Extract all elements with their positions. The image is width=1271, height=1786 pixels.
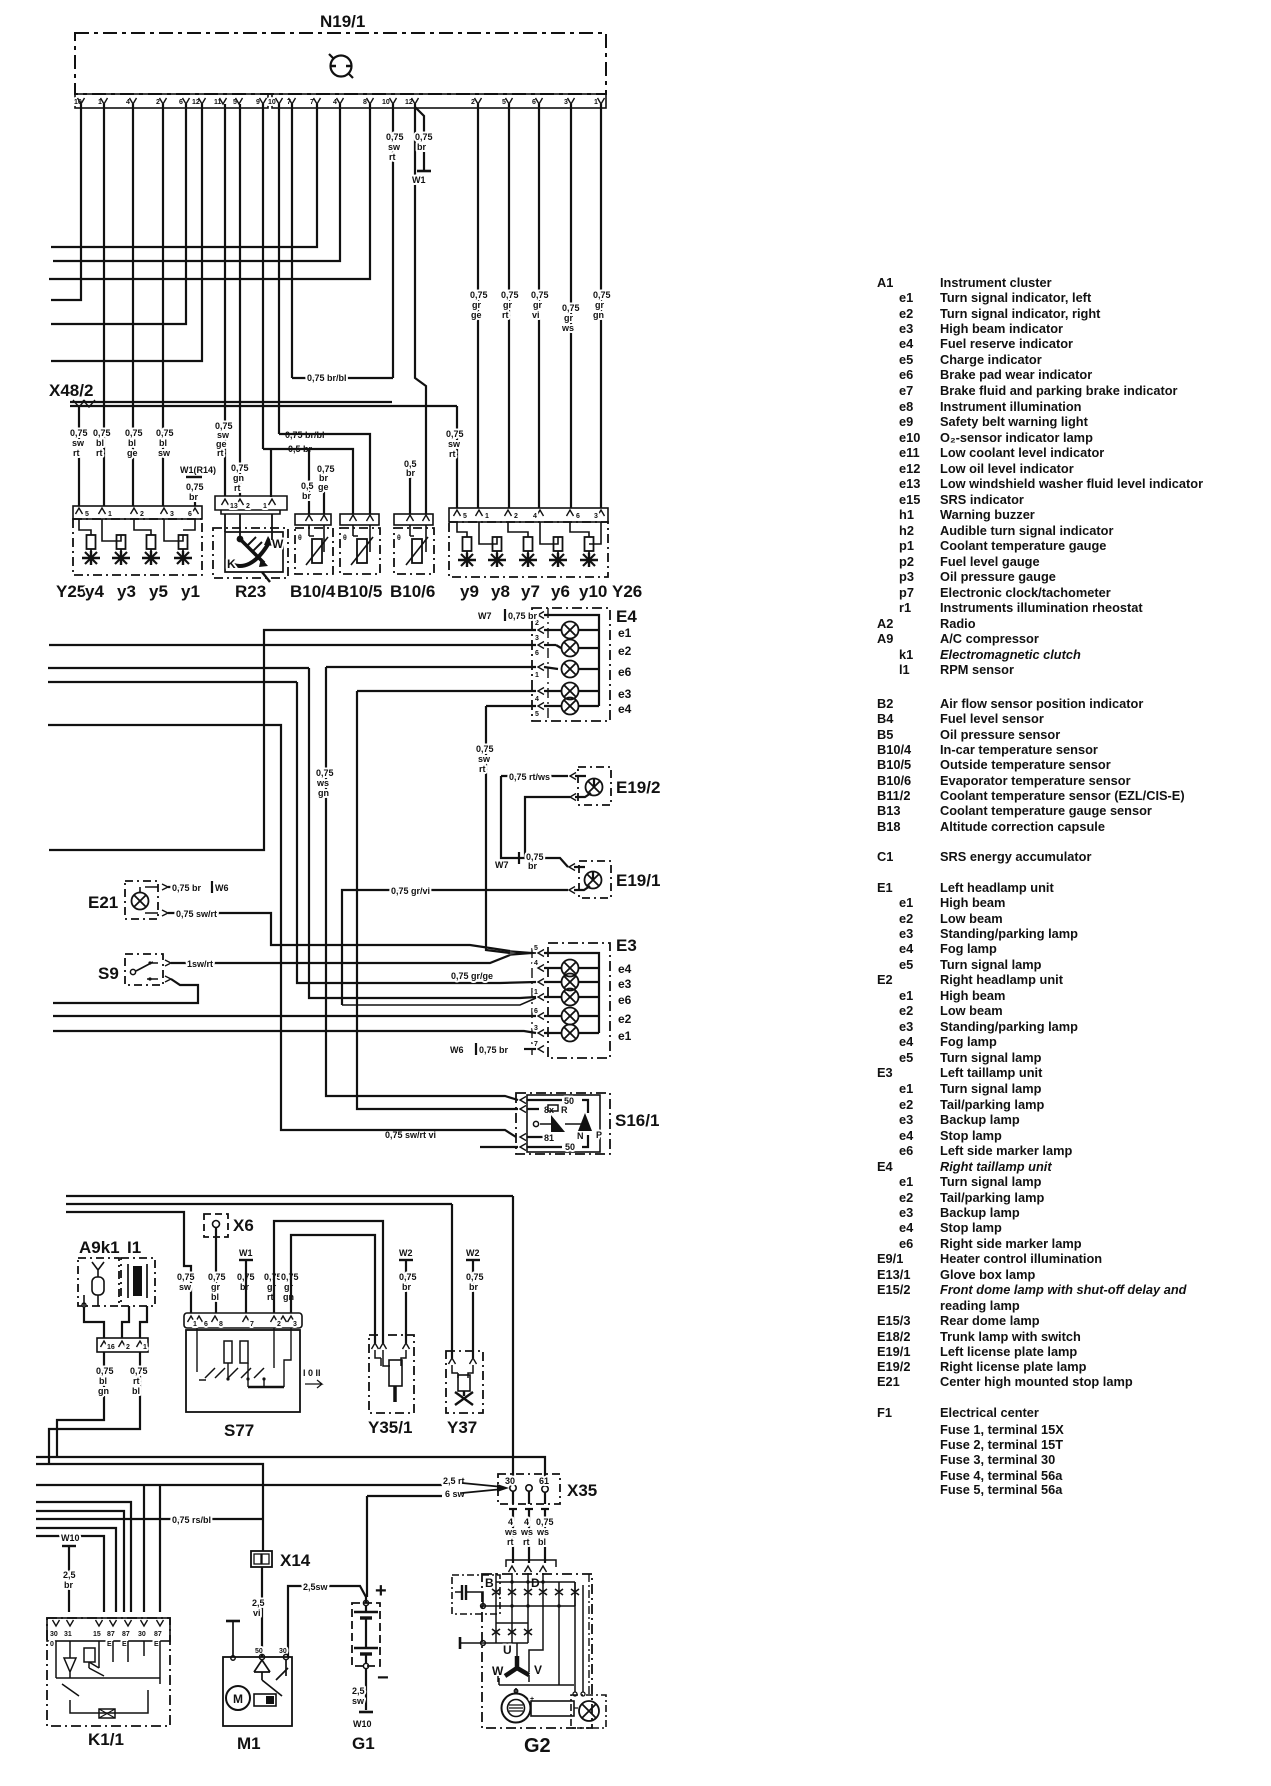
svg-text:Fuse 1, terminal 15X: Fuse 1, terminal 15X bbox=[940, 1422, 1064, 1437]
E4 lamp e4 bbox=[544, 698, 599, 715]
svg-text:e6: e6 bbox=[618, 993, 632, 1007]
svg-text:O₂-sensor indicator lamp: O₂-sensor indicator lamp bbox=[940, 430, 1093, 445]
svg-text:Fuse 5, terminal 56a: Fuse 5, terminal 56a bbox=[940, 1482, 1063, 1497]
svg-text:W7: W7 bbox=[495, 860, 509, 870]
svg-text:0,75 rs/bl: 0,75 rs/bl bbox=[172, 1515, 211, 1525]
svg-text:y3: y3 bbox=[117, 582, 136, 601]
wire labels X48/2 outputs bbox=[70, 373, 464, 502]
svg-text:0,75: 0,75 bbox=[208, 1272, 226, 1282]
svg-text:vi: vi bbox=[253, 1608, 261, 1618]
svg-text:Fuel reserve indicator: Fuel reserve indicator bbox=[940, 336, 1073, 351]
ground W2 for Y37 bbox=[466, 1248, 484, 1358]
valve Y35/1 box bbox=[368, 1335, 414, 1437]
svg-text:5: 5 bbox=[502, 99, 506, 106]
svg-text:e6: e6 bbox=[899, 1143, 913, 1158]
wire labels top bbox=[386, 132, 611, 333]
wire X35 feed vertical bbox=[512, 1196, 514, 1484]
svg-text:1: 1 bbox=[535, 672, 539, 679]
svg-text:E4: E4 bbox=[877, 1159, 894, 1174]
G2 stator windings bbox=[492, 1606, 543, 1682]
E4 lamp e1 bbox=[544, 622, 599, 639]
connector X6 bbox=[204, 1214, 254, 1237]
wire 0,75 sw/rt vi into S16/1 pin3 (label) bbox=[385, 1130, 436, 1140]
wire far-left e2 feed bbox=[53, 1015, 536, 1017]
wire far-left e1 feed bbox=[53, 1031, 536, 1033]
svg-text:G2: G2 bbox=[524, 1735, 551, 1757]
svg-text:Turn signal indicator, right: Turn signal indicator, right bbox=[940, 306, 1101, 321]
svg-text:B10/4: B10/4 bbox=[290, 582, 336, 601]
svg-text:Heater control illumination: Heater control illumination bbox=[940, 1251, 1102, 1266]
E4 lamp e3 bbox=[544, 683, 599, 700]
svg-text:SRS energy accumulator: SRS energy accumulator bbox=[940, 849, 1092, 864]
svg-text:12: 12 bbox=[192, 99, 200, 106]
svg-text:Coolant temperature gauge: Coolant temperature gauge bbox=[940, 538, 1106, 553]
valve block Y25 box bbox=[73, 519, 202, 575]
svg-text:0,75 gr/ge: 0,75 gr/ge bbox=[451, 971, 493, 981]
svg-text:gn: gn bbox=[318, 788, 329, 798]
valve block Y25 connector strip bbox=[73, 506, 202, 519]
svg-text:e6: e6 bbox=[899, 1236, 913, 1251]
svg-text:Turn signal lamp: Turn signal lamp bbox=[940, 1050, 1042, 1065]
svg-text:br: br bbox=[417, 142, 426, 152]
valve y1 bbox=[174, 535, 192, 565]
svg-text:0,75: 0,75 bbox=[186, 482, 204, 492]
svg-text:e1: e1 bbox=[899, 290, 913, 305]
svg-text:0: 0 bbox=[50, 1641, 54, 1648]
svg-text:Oil pressure sensor: Oil pressure sensor bbox=[940, 727, 1060, 742]
svg-text:rt: rt bbox=[389, 152, 396, 162]
svg-text:0,75: 0,75 bbox=[466, 1272, 484, 1282]
temp sensor B10/5 connector strip bbox=[340, 514, 379, 525]
svg-text:θ: θ bbox=[298, 535, 302, 542]
wire Y37 feed vertical bbox=[451, 1204, 453, 1358]
svg-text:e3: e3 bbox=[618, 977, 632, 991]
svg-text:e3: e3 bbox=[899, 926, 913, 941]
valve y7 bbox=[519, 537, 537, 567]
svg-text:gr: gr bbox=[503, 300, 512, 310]
svg-text:e2: e2 bbox=[899, 1097, 913, 1112]
E3 inner right bus bbox=[544, 953, 599, 1033]
svg-text:br: br bbox=[406, 468, 415, 478]
ground W1 above S77 bbox=[239, 1248, 253, 1313]
svg-text:Right taillamp unit: Right taillamp unit bbox=[940, 1159, 1052, 1174]
svg-text:y1: y1 bbox=[181, 582, 200, 601]
svg-text:Standing/parking lamp: Standing/parking lamp bbox=[940, 926, 1078, 941]
svg-text:5: 5 bbox=[85, 511, 89, 518]
wire pin6L to left stub bbox=[51, 104, 186, 324]
svg-text:Left side marker lamp: Left side marker lamp bbox=[940, 1143, 1072, 1158]
svg-text:R: R bbox=[561, 1105, 568, 1115]
svg-text:P: P bbox=[596, 1130, 602, 1140]
wire X14 down to M1 pin50 bbox=[261, 1567, 263, 1657]
svg-text:Left license plate lamp: Left license plate lamp bbox=[940, 1344, 1077, 1359]
svg-text:1: 1 bbox=[534, 989, 538, 996]
svg-text:θ: θ bbox=[343, 535, 347, 542]
svg-text:0,75: 0,75 bbox=[316, 768, 334, 778]
svg-text:4: 4 bbox=[333, 99, 337, 106]
svg-text:4: 4 bbox=[524, 1517, 529, 1527]
bottom bus 2,5rt to X35 pin30 bbox=[36, 1484, 442, 1486]
wire pin10R down to y378 bbox=[392, 104, 394, 378]
svg-text:y5: y5 bbox=[149, 582, 168, 601]
svg-text:B5: B5 bbox=[877, 727, 893, 742]
svg-text:0,75: 0,75 bbox=[281, 1272, 299, 1282]
svg-text:Low windshield washer fluid le: Low windshield washer fluid level indica… bbox=[940, 476, 1203, 491]
svg-text:30: 30 bbox=[505, 1476, 515, 1486]
svg-text:Brake pad wear indicator: Brake pad wear indicator bbox=[940, 367, 1092, 382]
svg-text:Turn signal lamp: Turn signal lamp bbox=[940, 1174, 1042, 1189]
svg-text:12: 12 bbox=[405, 99, 413, 106]
svg-text:e1: e1 bbox=[618, 1029, 632, 1043]
wire R23 pins down into box bbox=[225, 514, 272, 540]
svg-text:2: 2 bbox=[246, 503, 250, 510]
wire 0,75 gr/ge into E3 e3 bbox=[297, 682, 536, 983]
svg-text:87: 87 bbox=[122, 1631, 130, 1638]
svg-text:e2: e2 bbox=[618, 1012, 632, 1026]
svg-text:0,75: 0,75 bbox=[70, 428, 88, 438]
svg-text:Brake fluid and parking brake: Brake fluid and parking brake indicator bbox=[940, 383, 1178, 398]
svg-text:N19/1: N19/1 bbox=[320, 12, 365, 31]
svg-text:0,75: 0,75 bbox=[96, 1366, 114, 1376]
svg-text:B10/4: B10/4 bbox=[877, 742, 912, 757]
svg-text:W6: W6 bbox=[215, 883, 229, 893]
valve y4 bbox=[82, 535, 100, 565]
svg-text:0,75 sw/rt vi: 0,75 sw/rt vi bbox=[385, 1130, 436, 1140]
svg-text:0,75: 0,75 bbox=[531, 290, 549, 300]
svg-text:Instruments illumination rheos: Instruments illumination rheostat bbox=[940, 600, 1143, 615]
svg-text:0,75: 0,75 bbox=[415, 132, 433, 142]
svg-text:ge: ge bbox=[471, 310, 482, 320]
svg-text:e4: e4 bbox=[899, 941, 914, 956]
svg-text:Charge indicator: Charge indicator bbox=[940, 352, 1042, 367]
svg-text:gr: gr bbox=[211, 1282, 220, 1292]
svg-text:e5: e5 bbox=[899, 1050, 913, 1065]
svg-text:h1: h1 bbox=[899, 507, 914, 522]
svg-text:2,5sw: 2,5sw bbox=[303, 1582, 329, 1592]
svg-text:W10: W10 bbox=[353, 1719, 372, 1729]
wire E4 pin5 feed horizontal bbox=[486, 705, 536, 707]
svg-text:0,5: 0,5 bbox=[301, 481, 314, 491]
wire pin7R to left stub y247 bbox=[51, 104, 317, 247]
svg-text:K1/1: K1/1 bbox=[88, 1730, 124, 1749]
svg-text:Backup lamp: Backup lamp bbox=[940, 1205, 1020, 1220]
svg-text:sw: sw bbox=[158, 448, 171, 458]
wire 2,5sw M1 pin30 to G1 plus bbox=[288, 1586, 366, 1657]
svg-text:rt: rt bbox=[267, 1292, 274, 1302]
svg-text:Low oil level indicator: Low oil level indicator bbox=[940, 461, 1074, 476]
wire pin12R jog to B10/6 right pin bbox=[415, 104, 426, 514]
svg-text:High beam indicator: High beam indicator bbox=[940, 321, 1063, 336]
relay K1/1 bbox=[47, 1618, 170, 1749]
svg-text:Left taillamp unit: Left taillamp unit bbox=[940, 1065, 1043, 1080]
svg-text:e2: e2 bbox=[899, 1190, 913, 1205]
svg-text:15: 15 bbox=[93, 1631, 101, 1638]
wires A9/I1 to strip bbox=[84, 1306, 147, 1338]
svg-text:e4: e4 bbox=[618, 962, 632, 976]
svg-text:4: 4 bbox=[534, 960, 538, 967]
svg-text:Y37: Y37 bbox=[447, 1418, 477, 1437]
wire 6sw from G1 to X35 bbox=[367, 1495, 442, 1497]
wire E4 pin4 feed horizontal bbox=[357, 690, 536, 692]
svg-text:0,75: 0,75 bbox=[446, 429, 464, 439]
svg-text:4: 4 bbox=[508, 1517, 513, 1527]
E4 pins bbox=[535, 612, 544, 719]
svg-text:6 sw: 6 sw bbox=[445, 1489, 466, 1499]
wire 0,75 br/bl y378 bbox=[292, 377, 393, 379]
svg-text:M: M bbox=[233, 1692, 243, 1706]
lower section bus 2 bbox=[66, 1203, 452, 1205]
svg-text:X6: X6 bbox=[233, 1216, 254, 1235]
E3 lamp e2 bbox=[544, 1008, 599, 1025]
svg-text:E: E bbox=[154, 1641, 159, 1648]
svg-text:E2: E2 bbox=[877, 972, 893, 987]
svg-text:rt: rt bbox=[217, 448, 224, 458]
svg-text:Electronic clock/tachometer: Electronic clock/tachometer bbox=[940, 585, 1111, 600]
wire B10/4 right pin up label br ge bbox=[320, 484, 324, 514]
svg-text:R23: R23 bbox=[235, 582, 266, 601]
svg-text:Coolant temperature sensor (EZ: Coolant temperature sensor (EZL/CIS-E) bbox=[940, 788, 1185, 803]
svg-text:e6: e6 bbox=[618, 665, 632, 679]
N19/1 connector strip left bbox=[75, 94, 606, 108]
wire drop to R23 pin1 bbox=[270, 449, 272, 497]
svg-text:0,75 br: 0,75 br bbox=[479, 1045, 509, 1055]
svg-text:F1: F1 bbox=[877, 1405, 892, 1420]
svg-text:e12: e12 bbox=[899, 461, 920, 476]
svg-text:Right side marker lamp: Right side marker lamp bbox=[940, 1236, 1082, 1251]
svg-text:gn: gn bbox=[283, 1292, 294, 1302]
svg-text:bl: bl bbox=[128, 438, 136, 448]
E4 inner right bus bbox=[544, 615, 599, 706]
compressor A9 k1 bbox=[78, 1238, 120, 1307]
svg-text:D: D bbox=[531, 1576, 540, 1590]
svg-text:e1: e1 bbox=[899, 1081, 913, 1096]
valve y9 bbox=[458, 537, 476, 567]
E3 lamp e3 bbox=[544, 974, 599, 991]
svg-text:bl: bl bbox=[159, 438, 167, 448]
svg-text:B13: B13 bbox=[877, 803, 900, 818]
valve y3 bbox=[112, 535, 130, 565]
svg-text:sw: sw bbox=[478, 754, 491, 764]
svg-text:2: 2 bbox=[126, 1344, 130, 1351]
svg-text:br: br bbox=[469, 1282, 478, 1292]
svg-text:br: br bbox=[240, 1282, 249, 1292]
svg-text:Fog lamp: Fog lamp bbox=[940, 941, 997, 956]
svg-text:e1: e1 bbox=[899, 895, 913, 910]
svg-text:Electromagnetic clutch: Electromagnetic clutch bbox=[940, 647, 1081, 662]
rpm sensor I1 bbox=[121, 1238, 155, 1306]
svg-text:8: 8 bbox=[363, 99, 367, 106]
svg-text:E1: E1 bbox=[877, 880, 893, 895]
wire pin12R ground stub W1 bbox=[415, 107, 424, 170]
wire B10/6 left pin tap 0,5br bbox=[410, 472, 415, 514]
svg-text:p2: p2 bbox=[899, 554, 914, 569]
svg-text:0,75: 0,75 bbox=[177, 1272, 195, 1282]
svg-text:E19/2: E19/2 bbox=[616, 778, 660, 797]
svg-text:ws: ws bbox=[536, 1527, 549, 1537]
svg-text:p3: p3 bbox=[899, 569, 914, 584]
svg-text:0,75: 0,75 bbox=[130, 1366, 148, 1376]
svg-text:3: 3 bbox=[535, 635, 539, 642]
svg-text:S16/1: S16/1 bbox=[615, 1111, 659, 1130]
svg-text:X14: X14 bbox=[280, 1551, 311, 1570]
svg-text:30: 30 bbox=[50, 1631, 58, 1638]
svg-text:+: + bbox=[375, 1580, 387, 1602]
svg-text:8x: 8x bbox=[544, 1105, 554, 1115]
heater switch S77 box bbox=[186, 1328, 322, 1440]
svg-text:vi: vi bbox=[532, 310, 540, 320]
svg-text:e4: e4 bbox=[899, 1220, 914, 1235]
svg-text:E18/2: E18/2 bbox=[877, 1329, 910, 1344]
svg-text:2: 2 bbox=[514, 513, 518, 520]
svg-text:Fuel level gauge: Fuel level gauge bbox=[940, 554, 1040, 569]
wire E4 pin5 to E3 pin5 0,75 sw rt bbox=[486, 706, 510, 953]
svg-text:h2: h2 bbox=[899, 523, 914, 538]
svg-text:X48/2: X48/2 bbox=[49, 381, 93, 400]
temp sensor B10/5 box bbox=[340, 525, 380, 574]
svg-text:Turn signal lamp: Turn signal lamp bbox=[940, 1081, 1042, 1096]
svg-text:Evaporator temperature sensor: Evaporator temperature sensor bbox=[940, 773, 1131, 788]
svg-text:gn: gn bbox=[593, 310, 604, 320]
svg-text:3: 3 bbox=[293, 1321, 297, 1328]
svg-text:E19/1: E19/1 bbox=[877, 1344, 910, 1359]
svg-text:E21: E21 bbox=[88, 893, 118, 912]
svg-text:B11/2: B11/2 bbox=[877, 788, 910, 803]
wire 0,75 br/bl y434 to B10/5 bbox=[279, 434, 370, 514]
wire E4 e3 line into S16/1 pin2 bbox=[357, 691, 518, 1109]
svg-text:V: V bbox=[534, 1663, 542, 1677]
G2 ground bbox=[460, 1637, 528, 1649]
svg-text:gr: gr bbox=[564, 313, 573, 323]
svg-text:Tail/parking lamp: Tail/parking lamp bbox=[940, 1097, 1044, 1112]
svg-text:Radio: Radio bbox=[940, 616, 976, 631]
wire pin3R to Y26 bbox=[570, 104, 572, 508]
svg-text:E4: E4 bbox=[616, 607, 637, 626]
svg-text:e10: e10 bbox=[899, 430, 920, 445]
svg-text:rt: rt bbox=[449, 449, 456, 459]
svg-text:W7: W7 bbox=[478, 611, 492, 621]
wire W1(R14) stub into Y25 pin6 bbox=[194, 502, 196, 506]
starter M1 bbox=[223, 1621, 292, 1753]
svg-text:0,75 br: 0,75 br bbox=[172, 883, 202, 893]
svg-text:0,75: 0,75 bbox=[399, 1272, 417, 1282]
svg-text:rt: rt bbox=[523, 1537, 530, 1547]
wire pin5R to Y26 bbox=[508, 104, 510, 508]
G2 input pins bbox=[506, 1560, 556, 1567]
svg-text:e3: e3 bbox=[899, 321, 913, 336]
svg-text:W1: W1 bbox=[239, 1248, 253, 1258]
svg-text:4: 4 bbox=[535, 696, 539, 703]
svg-text:Right license plate lamp: Right license plate lamp bbox=[940, 1359, 1087, 1374]
svg-text:p1: p1 bbox=[899, 538, 914, 553]
svg-text:gr: gr bbox=[595, 300, 604, 310]
wire left stub y725 to S16/1 pin3 bbox=[48, 725, 516, 1137]
svg-text:Fuse 4, terminal 56a: Fuse 4, terminal 56a bbox=[940, 1468, 1063, 1483]
wire 0,75 rt/ws into E19/2 bbox=[501, 775, 568, 777]
wire pin4R to left stub y261 bbox=[53, 104, 340, 261]
wire stub into S16/1 pin4 bbox=[480, 1146, 518, 1148]
svg-text:θ: θ bbox=[397, 535, 401, 542]
ground W1(R14) bar bbox=[186, 476, 202, 478]
svg-text:y10: y10 bbox=[579, 582, 607, 601]
svg-text:S9: S9 bbox=[98, 964, 119, 983]
svg-text:A9k1: A9k1 bbox=[79, 1238, 120, 1257]
svg-text:2,5: 2,5 bbox=[63, 1570, 76, 1580]
svg-text:E19/1: E19/1 bbox=[616, 871, 660, 890]
N19/1 pins left: 10 1 4 2 6 12 11 5 9 10 7 bbox=[74, 99, 598, 106]
svg-text:10: 10 bbox=[268, 99, 276, 106]
svg-text:sw: sw bbox=[179, 1282, 192, 1292]
wire left stub y668 bbox=[48, 667, 309, 669]
svg-text:y7: y7 bbox=[521, 582, 540, 601]
svg-text:RPM sensor: RPM sensor bbox=[940, 662, 1014, 677]
svg-text:0,75: 0,75 bbox=[125, 428, 143, 438]
svg-text:E15/2: E15/2 bbox=[877, 1282, 910, 1297]
wire pin7L to br/bl line y378 bbox=[291, 104, 293, 378]
ground W2 for Y35/1 bbox=[399, 1248, 417, 1343]
svg-text:Instrument cluster: Instrument cluster bbox=[940, 275, 1052, 290]
svg-text:E19/2: E19/2 bbox=[877, 1359, 910, 1374]
svg-text:rt: rt bbox=[96, 448, 103, 458]
svg-text:br: br bbox=[402, 1282, 411, 1292]
svg-text:Fog lamp: Fog lamp bbox=[940, 1034, 997, 1049]
svg-text:gn: gn bbox=[233, 473, 244, 483]
svg-text:1: 1 bbox=[143, 1344, 147, 1351]
svg-text:sw: sw bbox=[448, 439, 461, 449]
svg-text:E21: E21 bbox=[877, 1374, 900, 1389]
svg-text:2,5 rt: 2,5 rt bbox=[443, 1476, 465, 1486]
alternator G2 main box bbox=[482, 1574, 592, 1728]
svg-text:sw: sw bbox=[72, 438, 85, 448]
ground W7 stub for E4 pin2 bbox=[478, 609, 538, 621]
wire far-left into E3 e6 bbox=[309, 668, 536, 998]
svg-text:0,75: 0,75 bbox=[264, 1272, 282, 1282]
svg-text:2: 2 bbox=[277, 1321, 281, 1328]
svg-text:A/C compressor: A/C compressor bbox=[940, 631, 1039, 646]
svg-text:bl: bl bbox=[96, 438, 104, 448]
svg-text:0,75: 0,75 bbox=[536, 1517, 554, 1527]
rheostat R23 box bbox=[213, 528, 288, 582]
svg-text:6: 6 bbox=[179, 99, 183, 106]
svg-text:Front dome lamp with shut-off: Front dome lamp with shut-off delay and bbox=[940, 1282, 1188, 1297]
svg-text:Safety belt warning light: Safety belt warning light bbox=[940, 414, 1089, 429]
svg-text:B4: B4 bbox=[877, 711, 894, 726]
svg-text:0,75: 0,75 bbox=[476, 744, 494, 754]
valve y8 bbox=[488, 537, 506, 567]
wire S9 1sw/rt to E3 pin5 bbox=[171, 955, 510, 963]
svg-text:reading lamp: reading lamp bbox=[940, 1298, 1020, 1313]
svg-text:e11: e11 bbox=[899, 445, 920, 460]
svg-text:bl: bl bbox=[538, 1537, 546, 1547]
svg-text:br: br bbox=[302, 491, 311, 501]
svg-text:Trunk lamp with switch: Trunk lamp with switch bbox=[940, 1329, 1081, 1344]
wire labels S77 inputs bbox=[177, 1272, 299, 1302]
svg-text:br: br bbox=[528, 861, 537, 871]
svg-text:0,75 br/bl: 0,75 br/bl bbox=[307, 373, 347, 383]
svg-text:Stop lamp: Stop lamp bbox=[940, 1220, 1002, 1235]
svg-text:87: 87 bbox=[154, 1631, 162, 1638]
svg-text:bl: bl bbox=[211, 1292, 219, 1302]
E3 lamp e6 bbox=[544, 989, 599, 1006]
taillamp unit E3 box bbox=[532, 943, 610, 1058]
svg-text:G1: G1 bbox=[352, 1734, 375, 1753]
svg-text:K: K bbox=[227, 557, 236, 571]
svg-text:e4: e4 bbox=[618, 702, 632, 716]
svg-text:Fuse 3, terminal 30: Fuse 3, terminal 30 bbox=[940, 1452, 1055, 1467]
svg-text:3: 3 bbox=[594, 513, 598, 520]
wire S9 lower pin return to left bbox=[53, 979, 198, 1003]
connector X14 bbox=[251, 1551, 311, 1570]
svg-text:e5: e5 bbox=[899, 352, 913, 367]
